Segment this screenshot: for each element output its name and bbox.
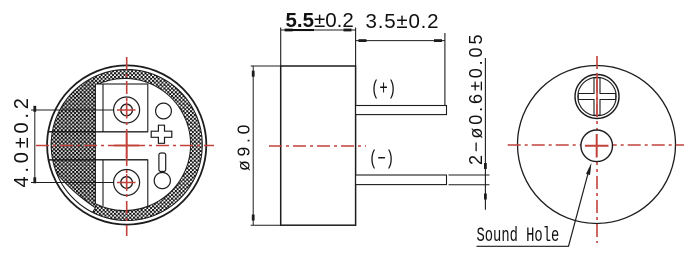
dim 9.0 extension line bottom [251,224,282,226]
red center cross left view [114,145,139,147]
pin dia extension line top [449,174,490,176]
red solid through screw [596,76,598,117]
tick 3.5 right [434,39,442,42]
dimension 4.0 extension line top [31,109,114,111]
body right edge extension [355,28,357,67]
sound hole circle [581,130,613,162]
tick pin dia bottom [484,194,487,200]
dimension line 5.5 [281,29,356,31]
outer case circle [47,65,206,224]
body left edge extension [280,28,282,67]
top pin outer circle [114,97,140,123]
pin tip extension line [444,33,446,106]
svg-text:ø9.0: ø9.0 [234,121,254,171]
dimension line 3.5 [356,40,445,42]
red vertical centerline right view [596,56,598,243]
band line lower [48,159,148,161]
bottom pin inner circle [121,177,133,189]
svg-text:4.0±0.2: 4.0±0.2 [11,94,33,187]
red cross at sound hole [585,145,609,147]
inner vertical line top rect [102,84,104,132]
small hole circle top right [156,103,172,119]
tick 4.0 top [33,106,36,112]
tick 9.0 bottom [252,215,255,221]
tick pin dia top [484,163,487,169]
tick 5.5 right [344,29,352,32]
inner vertical line bottom rect [102,160,104,206]
screw head outer circle [575,75,619,119]
minus terminal bar [159,153,166,172]
svg-text:Sound Hole: Sound Hole [477,225,560,249]
svg-text:3.5±0.2: 3.5±0.2 [366,10,440,33]
red centerline horizontal left view [36,145,214,147]
red centerline middle view [269,145,366,147]
leader arrowhead [586,163,592,175]
inner ring circle [51,70,202,221]
bottom pin outer circle [114,170,140,196]
red horizontal centerline right view [508,144,684,146]
stipple filled region (annulus + left crescent) [51,70,202,221]
plus polarity mark [151,125,172,143]
tick 9.0 top [252,71,255,77]
red centerline vertical left view [126,57,128,236]
svg-text:2−ø0.6±0.05: 2−ø0.6±0.05 [466,32,486,165]
leader line [477,168,590,246]
red center mark bottom pin [117,182,136,184]
dimension line 4.0 [34,110,36,183]
dimension line 9.0 [252,66,254,225]
top pin inner circle [121,104,133,116]
top pin holder rectangle [95,84,147,132]
case circle top view [518,66,676,224]
svg-text:(−): (−) [369,148,394,171]
white wedge bottom-left (stipple taper) [56,172,95,212]
dim 9.0 extension line top [251,65,282,67]
body rectangle [281,66,356,225]
screw cross slot [578,78,615,115]
tick 4.0 bottom [33,177,36,183]
svg-text:5.5±0.2: 5.5±0.2 [286,9,354,32]
red center mark top pin [117,109,136,111]
dimension 4.0 extension line bottom [31,182,114,184]
pin dia dimension line [484,58,486,210]
minus terminal circle [154,173,170,189]
pin 1 (+) [356,106,447,115]
bottom pin holder rectangle (bottom clipped by stipple arc) [95,160,147,211]
band line upper (across crescent and rect bottom) [49,131,148,133]
pin 2 (-) [356,175,447,185]
svg-text:(+): (+) [371,78,396,101]
screw head inner circle [578,77,616,115]
crescent darkening overlay [52,77,95,213]
tick 3.5 left [359,39,367,42]
pin dia extension line bottom [449,184,490,186]
tick 5.5 left [285,29,293,32]
